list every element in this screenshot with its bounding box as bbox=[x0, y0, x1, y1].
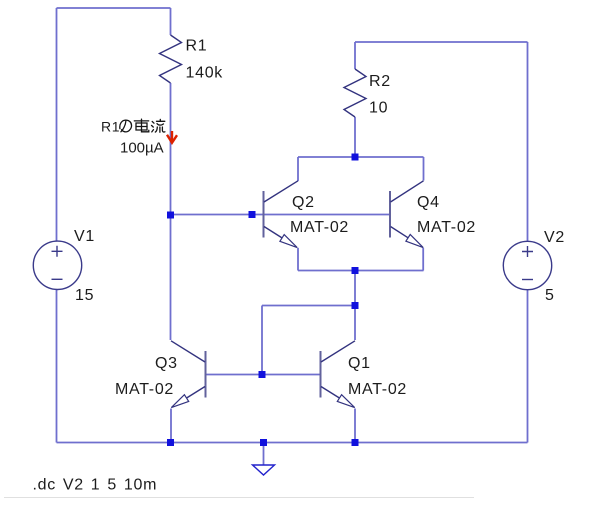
wire Q2/Q4 collector rail bbox=[298, 156, 424, 158]
voltage source V1 bbox=[33, 241, 81, 289]
wire R1 bottom to node A bbox=[170, 83, 172, 215]
svg-text:MAT-02: MAT-02 bbox=[290, 219, 349, 236]
svg-text:MAT-02: MAT-02 bbox=[115, 381, 174, 398]
wire top-right horizontal bbox=[355, 41, 528, 43]
svg-text:140k: 140k bbox=[186, 65, 224, 82]
svg-text:Q3: Q3 bbox=[155, 355, 178, 372]
voltage source V2 bbox=[503, 241, 551, 289]
node junction Q3/Q1 base bbox=[259, 371, 266, 378]
wire left vertical (V+ rail to V1) bbox=[56, 8, 58, 241]
transistor Q4 bbox=[390, 181, 424, 248]
wire Q2 emitter drop bbox=[297, 248, 299, 271]
svg-text:15: 15 bbox=[75, 287, 94, 304]
node junction ground rail / Q1 emitter bbox=[352, 439, 359, 446]
wire horizontal y=306 bbox=[262, 305, 355, 307]
svg-text:Q4: Q4 bbox=[417, 194, 440, 211]
wire emitter node down to node B bbox=[354, 271, 356, 306]
transistor Q2 bbox=[264, 181, 299, 248]
svg-text:Q2: Q2 bbox=[292, 194, 315, 211]
wire Q2 base to Q4 base bbox=[251, 214, 390, 216]
wire base junction vertical x=262 bbox=[261, 306, 263, 375]
wire Q3 base to Q1 base bbox=[206, 374, 321, 376]
wire Q2/Q4 emitter rail bbox=[298, 270, 424, 272]
node junction ground symbol bbox=[260, 439, 267, 446]
svg-text:100µA: 100µA bbox=[120, 140, 164, 157]
wire top-left horizontal bbox=[57, 7, 171, 9]
node junction emitter rail bbox=[352, 267, 359, 274]
node junction B (y=306) bbox=[352, 302, 359, 309]
node junction ground rail / Q3 emitter bbox=[167, 439, 174, 446]
transistor Q1 bbox=[321, 341, 356, 408]
wire node A down to Q3 collector bbox=[170, 215, 172, 340]
wire base rail left (node A to Q2 base) bbox=[171, 214, 252, 216]
svg-text:R1: R1 bbox=[101, 119, 120, 135]
wire V1 bottom to ground rail bbox=[56, 290, 58, 443]
wire V2 bottom to ground rail bbox=[527, 290, 529, 443]
ground bbox=[253, 465, 275, 475]
wire R2 bottom bbox=[354, 117, 356, 157]
svg-text:.dc V2 1 5 10m: .dc V2 1 5 10m bbox=[33, 477, 158, 494]
wire R2 top bbox=[354, 42, 356, 69]
current annotation arrow (red) bbox=[167, 131, 177, 143]
svg-text:MAT-02: MAT-02 bbox=[348, 381, 407, 398]
wire Q4 emitter drop bbox=[422, 248, 424, 271]
svg-text:10: 10 bbox=[369, 100, 388, 117]
svg-text:Q1: Q1 bbox=[348, 355, 371, 372]
glyph den bbox=[134, 120, 148, 122]
svg-text:R2: R2 bbox=[369, 73, 391, 90]
svg-text:5: 5 bbox=[545, 287, 555, 304]
transistor Q3 (mirrored) bbox=[171, 341, 206, 408]
resistor R1 bbox=[160, 35, 182, 83]
glyph ryuu bbox=[152, 122, 154, 124]
wire Q2 collector rise bbox=[297, 157, 299, 181]
glyph no bbox=[121, 120, 126, 132]
resistor R2 bbox=[344, 69, 366, 117]
svg-text:V2: V2 bbox=[544, 229, 565, 246]
wire Q4 collector rise bbox=[423, 157, 425, 181]
faint bottom border line bbox=[4, 497, 474, 499]
node junction R2/collector rail bbox=[352, 154, 359, 161]
wire right vertical (to V2) bbox=[527, 42, 529, 242]
annotation text R1の電流 bbox=[101, 119, 165, 135]
svg-text:MAT-02: MAT-02 bbox=[417, 219, 476, 236]
node junction A (R1/base rail) bbox=[167, 212, 174, 219]
wire ground stub bbox=[263, 443, 265, 466]
wire node B down to Q1 collector bbox=[354, 306, 356, 341]
node junction Q2 base bbox=[249, 211, 256, 218]
wire R1 top bbox=[170, 8, 172, 35]
svg-text:R1: R1 bbox=[186, 38, 208, 55]
wire Q1 emitter down to ground rail bbox=[354, 409, 356, 443]
svg-text:V1: V1 bbox=[74, 228, 95, 245]
wire Q3 emitter down to ground rail bbox=[170, 409, 172, 443]
wire bottom ground rail bbox=[57, 442, 528, 444]
